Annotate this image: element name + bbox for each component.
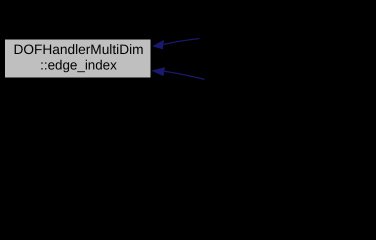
node DOFHandlerMultiDim::edge_index xyxy=(5,40,151,78)
caller edge 2 (arrow into right side of node, lower) xyxy=(151,67,204,79)
svg-text:DOFHandlerMultiDim: DOFHandlerMultiDim xyxy=(13,42,143,57)
caller edge 1 (arrow into right side of node, upper) xyxy=(152,39,199,50)
svg-text:::edge_index: ::edge_index xyxy=(40,58,117,73)
